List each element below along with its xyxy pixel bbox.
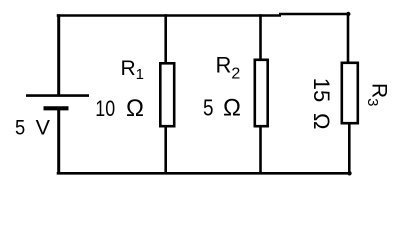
wire R1 bottom lead [164,127,167,175]
wire left branch upper [57,14,60,96]
svg-text:Ω: Ω [126,95,144,122]
svg-text:Ω: Ω [223,95,241,122]
wire R3 top lead [347,13,350,64]
svg-text:5: 5 [15,116,25,140]
battery V1 long plate [26,94,89,97]
wire R2 bottom lead [259,126,262,175]
svg-text:5: 5 [203,95,214,121]
svg-text:10: 10 [95,96,115,121]
wire top right segment [279,13,350,16]
wire bottom [57,172,350,175]
wire left branch lower [57,109,60,175]
wire R1 top lead [164,14,167,64]
wire R3 bottom lead [348,123,351,174]
wire R2 top lead [259,14,262,60]
svg-text:Ω: Ω [309,113,334,129]
resistor R3 body [342,63,358,123]
svg-text:V: V [36,116,51,140]
resistor R2 body [255,60,268,126]
junction dot top right [346,12,350,16]
resistor R1 body [160,63,174,126]
wire top left segment [57,14,281,17]
junction dot bottom right [347,171,351,175]
svg-text:15: 15 [309,78,334,102]
battery V1 short plate [44,106,69,110]
